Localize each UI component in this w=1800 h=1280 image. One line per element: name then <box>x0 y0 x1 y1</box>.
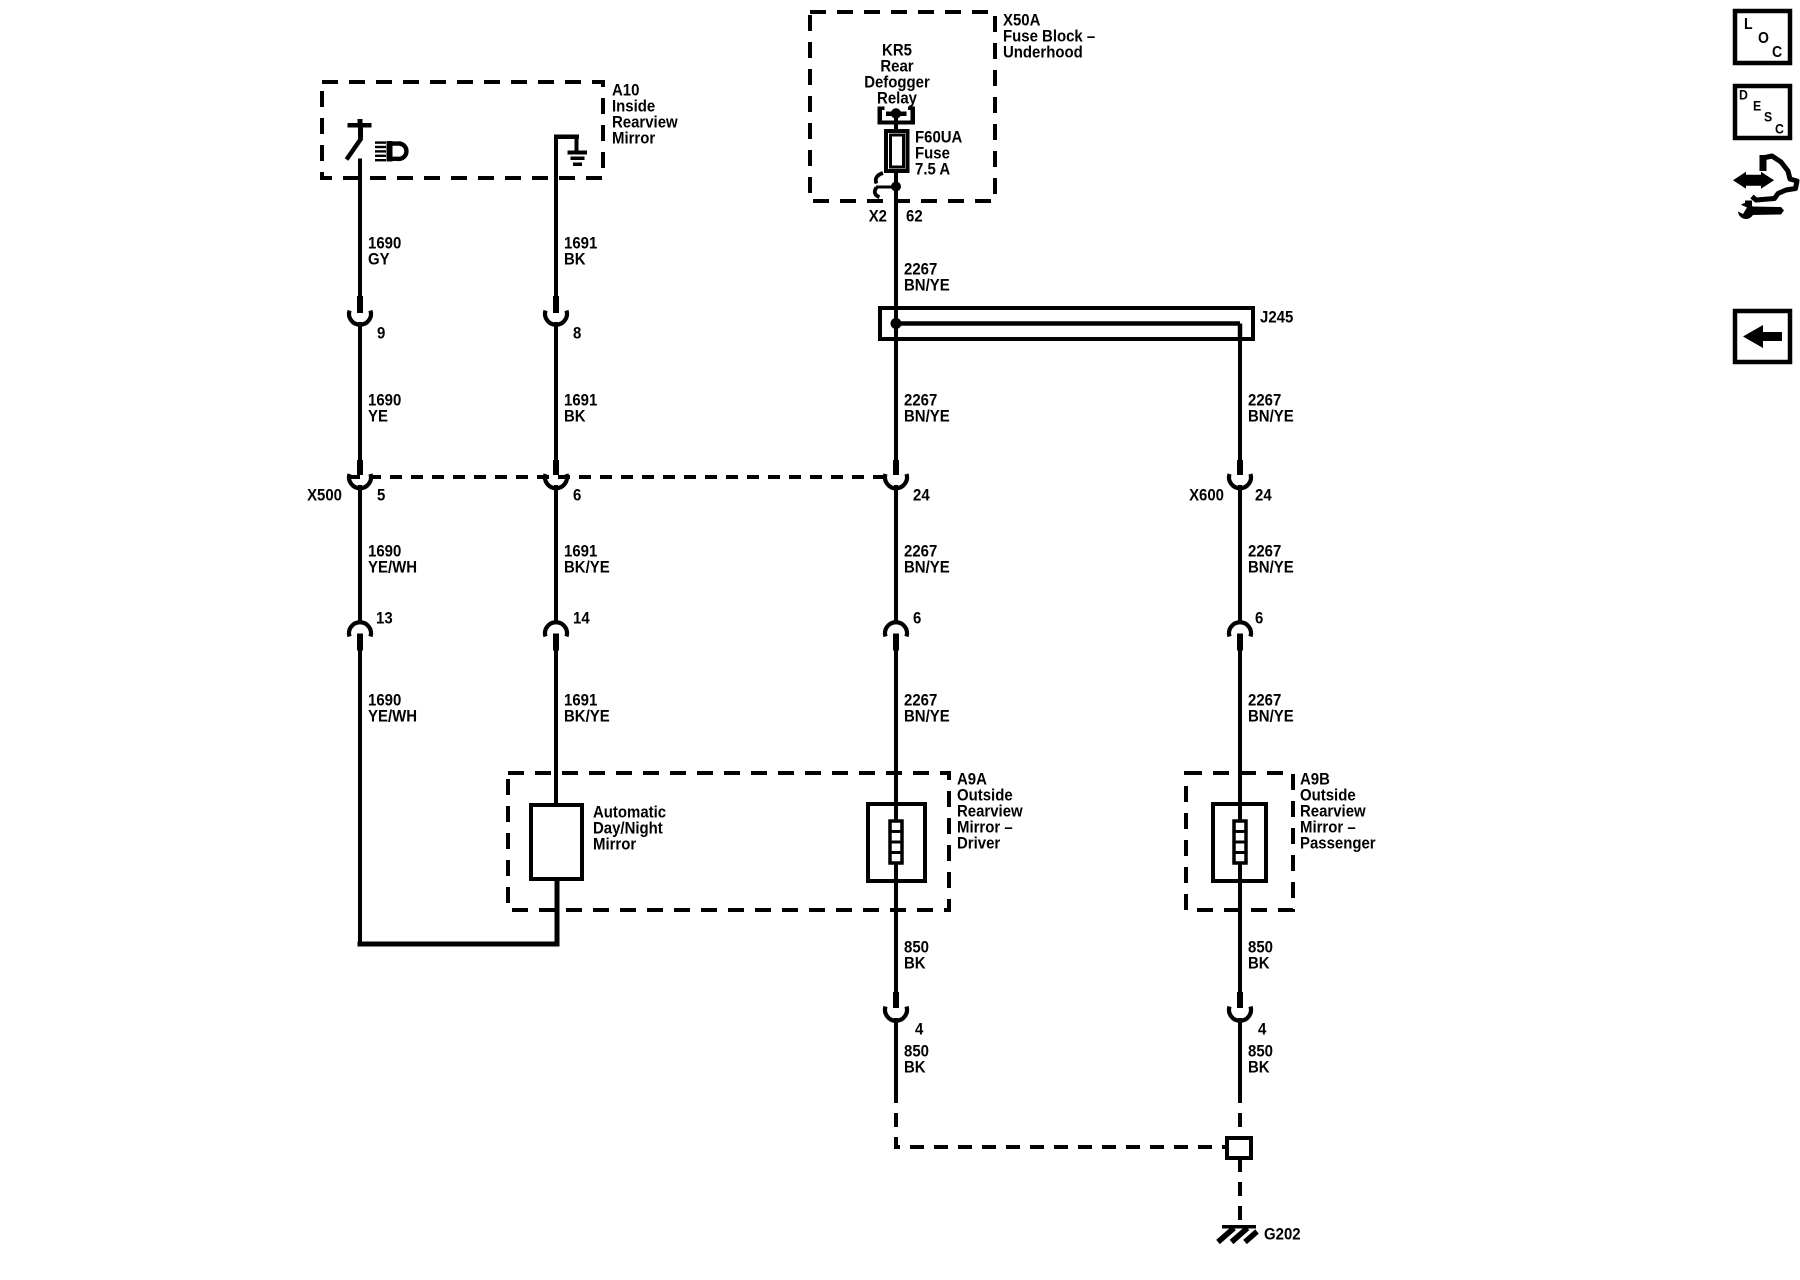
svg-text:S: S <box>1764 109 1772 125</box>
svg-text:G202: G202 <box>1264 1226 1301 1244</box>
svg-text:5: 5 <box>377 487 385 505</box>
svg-text:Underhood: Underhood <box>1003 44 1083 62</box>
svg-text:O: O <box>1758 29 1769 47</box>
svg-text:6: 6 <box>573 487 581 505</box>
svg-text:9: 9 <box>377 325 385 343</box>
svg-text:BN/YE: BN/YE <box>904 559 950 577</box>
svg-text:4: 4 <box>1258 1021 1266 1039</box>
svg-text:Mirror: Mirror <box>593 836 636 854</box>
svg-text:Driver: Driver <box>957 835 1000 853</box>
svg-text:BN/YE: BN/YE <box>904 708 950 726</box>
svg-text:24: 24 <box>1255 487 1272 505</box>
svg-text:D: D <box>1739 87 1748 103</box>
svg-text:BN/YE: BN/YE <box>904 277 950 295</box>
svg-text:BK: BK <box>564 408 586 426</box>
svg-text:X2: X2 <box>869 208 887 226</box>
svg-text:GY: GY <box>368 251 390 269</box>
svg-text:Relay: Relay <box>877 90 917 108</box>
svg-text:YE/WH: YE/WH <box>368 559 417 577</box>
svg-text:7.5 A: 7.5 A <box>915 161 951 179</box>
svg-text:BK: BK <box>564 251 586 269</box>
svg-text:C: C <box>1772 43 1782 61</box>
svg-text:BK: BK <box>904 1059 926 1077</box>
svg-text:BK/YE: BK/YE <box>564 559 610 577</box>
svg-text:BK: BK <box>904 955 926 973</box>
svg-text:BK/YE: BK/YE <box>564 708 610 726</box>
svg-text:62: 62 <box>906 208 923 226</box>
svg-text:BN/YE: BN/YE <box>1248 408 1294 426</box>
svg-text:6: 6 <box>913 610 921 628</box>
svg-text:E: E <box>1753 98 1761 114</box>
svg-text:YE: YE <box>368 408 388 426</box>
svg-text:24: 24 <box>913 487 930 505</box>
svg-text:YE/WH: YE/WH <box>368 708 417 726</box>
svg-text:J245: J245 <box>1260 309 1293 327</box>
svg-text:C: C <box>1775 121 1784 137</box>
svg-text:X500: X500 <box>307 487 342 505</box>
svg-text:13: 13 <box>376 610 393 628</box>
svg-text:L: L <box>1744 15 1753 33</box>
svg-text:6: 6 <box>1255 610 1263 628</box>
svg-text:BN/YE: BN/YE <box>904 408 950 426</box>
svg-text:BN/YE: BN/YE <box>1248 708 1294 726</box>
svg-text:8: 8 <box>573 325 581 343</box>
svg-text:Mirror: Mirror <box>612 130 655 148</box>
svg-text:14: 14 <box>573 610 590 628</box>
svg-text:X600: X600 <box>1189 487 1224 505</box>
svg-text:BK: BK <box>1248 1059 1270 1077</box>
svg-text:Passenger: Passenger <box>1300 835 1376 853</box>
svg-text:BK: BK <box>1248 955 1270 973</box>
svg-text:BN/YE: BN/YE <box>1248 559 1294 577</box>
svg-text:4: 4 <box>915 1021 923 1039</box>
